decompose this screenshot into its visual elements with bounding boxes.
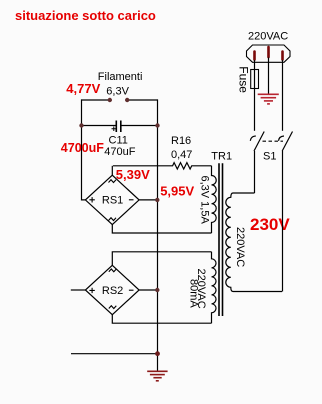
bridge rectifier RS1	[85, 166, 211, 233]
wire neutral down from pin N	[282, 60, 284, 131]
svg-text:TR1: TR1	[211, 151, 232, 163]
ground symbol mains earth	[258, 94, 279, 104]
pin E (middle)	[267, 47, 270, 57]
svg-text:S1: S1	[263, 151, 276, 163]
pin N	[281, 52, 284, 60]
svg-text:4700uF: 4700uF	[61, 141, 104, 155]
svg-text:5,95V: 5,95V	[160, 184, 194, 199]
svg-text:R16: R16	[171, 135, 191, 147]
svg-text:Filamenti: Filamenti	[98, 71, 143, 83]
node cap right junction	[155, 123, 159, 127]
svg-text:220VAC: 220VAC	[234, 227, 246, 267]
ground symbol bottom	[147, 371, 167, 381]
svg-text:Fuse: Fuse	[236, 66, 250, 93]
svg-text:C11: C11	[109, 134, 128, 146]
switch linkage dashed	[263, 140, 284, 142]
node RS1 + junction	[155, 198, 159, 202]
transformer secondary winding 6.3V	[212, 166, 217, 233]
capacitor C11	[116, 121, 121, 133]
wire bottom ground row	[71, 353, 158, 355]
wire switch B to primary bottom	[282, 151, 284, 292]
transformer secondary winding 220VAC 80mA	[212, 252, 217, 323]
transformer primary winding 220VAC	[226, 193, 282, 292]
svg-text:RS2: RS2	[102, 285, 123, 297]
connector 220VAC outline	[247, 45, 291, 62]
svg-text:4,77V: 4,77V	[66, 81, 100, 96]
wire switch A to primary top	[254, 151, 256, 193]
wire left rail	[82, 99, 86, 199]
node ground junction	[155, 351, 160, 356]
svg-text:220VAC: 220VAC	[248, 31, 288, 43]
node RS2 + junction	[155, 288, 159, 292]
wire right rail	[157, 99, 159, 371]
svg-text:0,47: 0,47	[171, 149, 192, 161]
svg-text:6,3V: 6,3V	[106, 86, 129, 98]
node filament terminal right	[125, 98, 129, 102]
svg-text:470uF: 470uF	[104, 146, 135, 158]
resistor R16	[113, 163, 212, 169]
svg-text:80mA: 80mA	[188, 279, 200, 308]
pin L	[253, 52, 256, 60]
svg-text:RS1: RS1	[102, 195, 123, 207]
node cap left junction	[79, 123, 83, 127]
bridge rectifier RS2	[71, 252, 212, 323]
node filament terminal left	[108, 98, 112, 102]
wire earth down from middle pin	[268, 58, 270, 95]
svg-text:5,39V: 5,39V	[116, 167, 150, 182]
switch S1 pole A	[254, 132, 264, 152]
transformer core	[219, 163, 223, 316]
svg-text:6,3V 1,5A: 6,3V 1,5A	[199, 176, 211, 225]
svg-text:230V: 230V	[250, 215, 290, 234]
switch S1 pole B	[282, 132, 292, 152]
wire top filament row	[82, 99, 158, 101]
wire capacitor row	[82, 125, 158, 127]
fuse body	[251, 70, 259, 89]
svg-text:situazione sotto carico: situazione sotto carico	[15, 8, 156, 23]
wire phase down from pin L	[254, 60, 256, 131]
